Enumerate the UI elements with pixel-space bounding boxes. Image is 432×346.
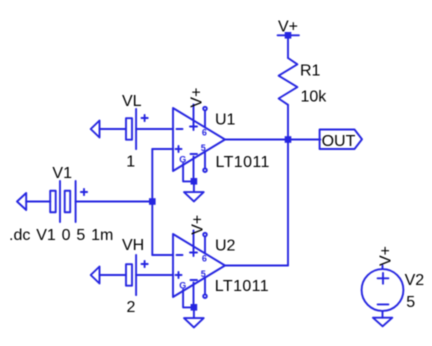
- U1 pin 5 line: [204, 152, 206, 168]
- svg-text:G: G: [179, 280, 186, 290]
- V2 top stub: [382, 266, 384, 269]
- wire node down to U2 output: [287, 140, 289, 266]
- wire U1 output to node: [225, 139, 288, 141]
- U2 pin 6 line: [204, 237, 206, 254]
- V1 negative plate 2: [65, 191, 71, 213]
- svg-text:5: 5: [201, 143, 206, 153]
- V1 negative plate 1: [50, 191, 56, 213]
- U1 V+ marker: [190, 126, 197, 128]
- VL plus marker: [142, 117, 148, 119]
- wire to U1 non-inverting input: [152, 148, 173, 150]
- svg-text:10k: 10k: [301, 89, 328, 106]
- VL ground symbol (left): [91, 121, 100, 138]
- svg-text:1: 1: [126, 154, 135, 171]
- VH negative plate: [126, 264, 132, 286]
- resistor R1: [279, 58, 298, 105]
- U2 V+ pin line: [193, 231, 195, 250]
- voltage source VH (battery cell): [91, 255, 173, 295]
- svg-text:VL: VL: [122, 93, 142, 110]
- svg-text:5: 5: [406, 294, 415, 311]
- U1 V- marker: [191, 153, 198, 155]
- voltage source V1 (battery): [17, 181, 152, 222]
- wire V+ flag to R1 top: [287, 35, 289, 58]
- svg-text:V+: V+: [189, 88, 206, 108]
- svg-text:OUT: OUT: [322, 133, 356, 150]
- node square at V+ flag: [285, 32, 292, 39]
- wire node to OUT flag: [288, 139, 320, 141]
- svg-text:5: 5: [201, 269, 206, 279]
- U1 V- pin line: [193, 157, 195, 179]
- wire V1 to central node: [76, 201, 153, 203]
- U1 body triangle: [173, 108, 225, 171]
- U1 ground pin wire: [183, 164, 191, 182]
- svg-text:VH: VH: [122, 237, 144, 254]
- U1 ground symbol: [184, 192, 204, 201]
- svg-text:LT1011: LT1011: [216, 154, 270, 171]
- wire VH to U2 non-inverting input: [136, 274, 173, 276]
- svg-text:6: 6: [202, 127, 207, 137]
- V2 plus marker: [378, 277, 389, 279]
- svg-text:R1: R1: [300, 63, 321, 80]
- VH ground symbol (left): [91, 267, 100, 284]
- vertical wire from U1 + input to U2 - input: [151, 149, 153, 255]
- U1 pin 5 circle: [203, 168, 207, 172]
- svg-text:V2: V2: [405, 272, 425, 289]
- U1 pin 6 line: [204, 111, 206, 128]
- voltage source V2: [362, 266, 404, 327]
- V2 circle: [362, 269, 404, 311]
- central node square: [149, 198, 156, 205]
- VL negative plate: [126, 118, 132, 140]
- U2 wire square to ground: [193, 311, 195, 319]
- U1 V+ pin line: [193, 105, 195, 124]
- U2 ground symbol: [184, 318, 204, 327]
- U2 non-inverting input marker: [176, 274, 182, 276]
- wire to U2 inverting input: [152, 254, 173, 256]
- V2 bottom stub: [382, 311, 384, 318]
- svg-text:G: G: [179, 154, 186, 164]
- U1 non-inverting input marker: [176, 148, 182, 150]
- V2 minus marker: [378, 303, 389, 305]
- svg-text:V+: V+: [278, 18, 298, 35]
- svg-text:U1: U1: [215, 112, 236, 129]
- U2 pin 5 line: [204, 278, 206, 294]
- wire R1 bottom to output node: [287, 105, 289, 140]
- svg-text:.dc V1 0 5 1m: .dc V1 0 5 1m: [9, 227, 113, 244]
- svg-text:2: 2: [127, 299, 136, 316]
- svg-text:V1: V1: [52, 165, 72, 182]
- wire ground to VH: [100, 274, 127, 276]
- VH plus marker: [142, 263, 148, 265]
- U2 pin 6 circle: [203, 233, 207, 237]
- comparator U2: [173, 231, 225, 328]
- svg-text:U2: U2: [215, 238, 236, 255]
- U2 V- marker: [191, 279, 198, 281]
- V1 ground symbol (left): [17, 193, 26, 210]
- U1 pin 6 circle: [203, 107, 207, 111]
- wire U2 output to vertical wire: [225, 265, 288, 267]
- voltage source VL (battery cell): [91, 109, 173, 149]
- U2 V- pin line: [193, 283, 195, 305]
- V1 positive plate 1: [59, 181, 61, 222]
- svg-text:V+: V+: [190, 215, 207, 235]
- net flag V+ (top right): [278, 34, 299, 36]
- U2 V+ marker: [190, 252, 197, 254]
- V1 plus marker: [81, 191, 87, 193]
- OUT flag outline: [320, 130, 362, 150]
- svg-text:LT1011: LT1011: [215, 278, 269, 295]
- junction node OUT: [285, 136, 292, 143]
- U2 body triangle: [173, 234, 225, 297]
- V1 positive plate 2: [75, 181, 77, 222]
- U2 node square below: [191, 304, 198, 311]
- VL positive plate: [135, 109, 137, 149]
- svg-text:V+: V+: [378, 246, 395, 266]
- U2 pin 5 circle: [203, 294, 207, 298]
- U2 ground pin wire: [183, 290, 191, 308]
- VH positive plate: [135, 255, 137, 295]
- V2 ground symbol: [373, 318, 392, 327]
- wire ground to VL: [100, 128, 127, 130]
- U2 inverting input marker: [177, 254, 183, 256]
- wire ground to V1: [26, 201, 50, 203]
- U1 wire square to ground: [193, 185, 195, 193]
- U1 inverting input marker: [177, 128, 183, 130]
- comparator U1: [173, 105, 225, 202]
- wire VL to U1 inverting input: [136, 128, 173, 130]
- U1 node square below: [191, 178, 198, 185]
- svg-text:6: 6: [202, 253, 207, 263]
